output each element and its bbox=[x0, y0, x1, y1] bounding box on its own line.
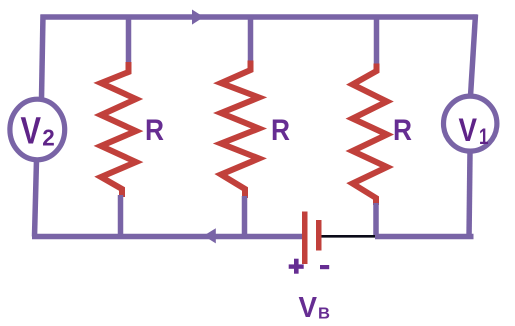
label V2 bbox=[21, 111, 55, 153]
battery VB negative plate (short bar) bbox=[316, 220, 322, 251]
wire bottom bus (right segment) bbox=[375, 234, 474, 240]
svg-text:R: R bbox=[145, 114, 164, 147]
wire V2 bottom lead bbox=[35, 160, 37, 237]
svg-text:V: V bbox=[299, 292, 318, 324]
wire R3 bottom lead bbox=[373, 203, 379, 237]
resistor R2 bbox=[221, 61, 259, 199]
wire battery to R3 node (black) bbox=[322, 235, 379, 238]
wire R2 top lead bbox=[248, 15, 254, 63]
svg-text:V: V bbox=[459, 112, 478, 148]
svg-text:2: 2 bbox=[42, 125, 55, 151]
wire bottom bus (left segment) bbox=[32, 234, 303, 240]
voltmeter V2 bbox=[10, 99, 65, 160]
svg-text:B: B bbox=[318, 306, 330, 323]
label V1 bbox=[459, 112, 489, 149]
wire V1 top lead bbox=[471, 15, 476, 97]
current arrow bottom (pointing left) bbox=[204, 228, 216, 243]
wire R2 bottom lead bbox=[242, 196, 248, 237]
wire R3 top lead bbox=[374, 15, 380, 66]
svg-text:R: R bbox=[393, 114, 412, 147]
svg-text:R: R bbox=[271, 114, 290, 147]
current arrow top (pointing right) bbox=[192, 10, 204, 25]
label + (battery positive) bbox=[289, 259, 304, 274]
wire top bus bbox=[41, 14, 478, 20]
voltmeter V1 bbox=[444, 96, 497, 151]
wire left branch top (V2 top lead) bbox=[42, 15, 44, 100]
svg-text:V: V bbox=[21, 111, 42, 153]
wire R1 top lead bbox=[126, 15, 132, 65]
wire right branch bottom (V1 bottom lead) bbox=[469, 152, 470, 239]
label VB bbox=[299, 292, 331, 324]
battery VB positive plate (long bar) bbox=[302, 212, 308, 265]
resistor R1 bbox=[101, 62, 136, 197]
svg-text:1: 1 bbox=[479, 124, 489, 149]
label - (battery negative) bbox=[320, 265, 329, 269]
wire R1 bottom lead bbox=[118, 195, 124, 237]
resistor R3 bbox=[353, 64, 388, 206]
